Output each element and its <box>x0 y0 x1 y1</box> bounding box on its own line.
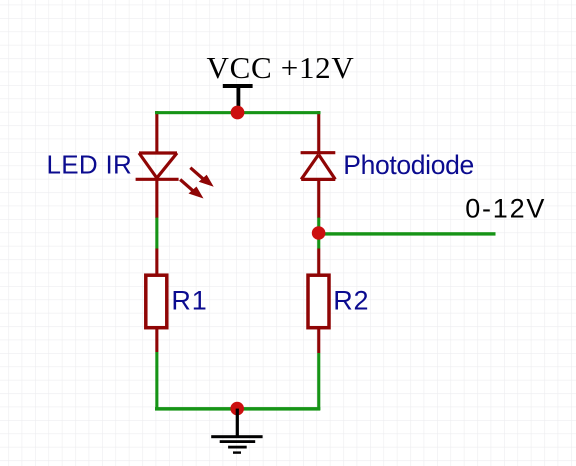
wire: bottom horizontal ground rail <box>155 407 320 411</box>
LED D1 symbol <box>136 153 179 179</box>
svg-text:R1: R1 <box>171 286 207 316</box>
ground symbol bar 2 <box>220 440 256 443</box>
wire: right red segment photodiode to green <box>317 179 320 218</box>
photodiode D2 symbol <box>301 153 336 180</box>
wire: left green net segment between LED and R1 <box>155 218 158 249</box>
LED emission arrow 1 <box>179 178 203 198</box>
wire: right red pin into R2 top <box>317 249 320 276</box>
wire: left vertical red pin segment from top corner to LED anode <box>155 111 158 153</box>
wire: top horizontal net VCC <box>155 111 321 114</box>
ground symbol stem <box>236 409 239 437</box>
wire: left green segment R1 to bottom rail <box>155 352 158 410</box>
wire: left red pin into R1 top <box>155 249 158 276</box>
resistor R1 body <box>146 275 167 328</box>
wire: output net 0-12V horizontal <box>319 232 496 235</box>
junction dot: output node <box>312 226 326 240</box>
wire: right green net segment with output tap <box>317 218 320 249</box>
svg-text:VCC +12V: VCC +12V <box>207 50 355 85</box>
svg-text:R2: R2 <box>333 286 369 316</box>
wire: right vertical red pin from top corner to photodiode <box>317 111 320 153</box>
power VCC symbol stem <box>237 88 241 108</box>
junction dot: ground node <box>230 402 244 416</box>
svg-text:Photodiode: Photodiode <box>343 150 474 180</box>
wire: right green segment R2 to bottom rail <box>317 353 320 410</box>
svg-text:0-12V: 0-12V <box>465 194 546 224</box>
resistor R2 body <box>308 275 329 328</box>
wire: left red segment LED cathode to green <box>155 179 158 218</box>
wire: right red pin from R2 bottom <box>317 327 320 353</box>
wire: left red pin from R1 bottom <box>155 327 158 352</box>
svg-text:LED IR: LED IR <box>47 149 133 179</box>
power VCC symbol bar <box>223 84 253 88</box>
ground symbol bar 1 <box>211 435 262 438</box>
LED emission arrow 2 <box>189 167 213 187</box>
ground symbol bar 3 <box>228 446 247 449</box>
ground symbol bar 4 <box>233 451 241 453</box>
junction dot: VCC top node <box>231 106 245 120</box>
